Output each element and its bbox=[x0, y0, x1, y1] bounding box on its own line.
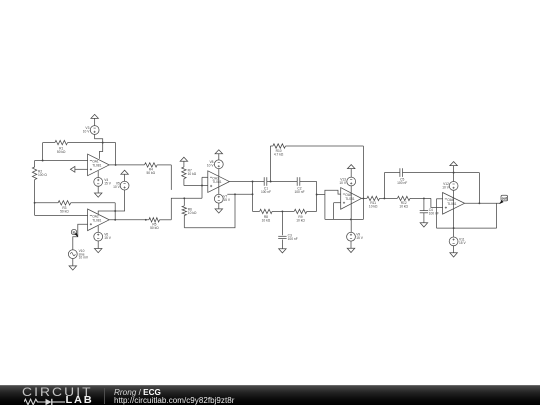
wire R5 up to stage2 row bbox=[171, 198, 202, 220]
wire OA6 output row bbox=[465, 202, 501, 204]
svg-text:TL081: TL081 bbox=[92, 164, 101, 168]
wire dangling stub right of R4 bbox=[170, 165, 172, 190]
junction output / top feedback bbox=[478, 202, 480, 204]
ground below V11 bbox=[450, 246, 458, 257]
junction R6 top bbox=[183, 197, 185, 199]
wire link to OA5 inverting input bbox=[325, 190, 341, 194]
svg-text:100 nF: 100 nF bbox=[288, 237, 298, 241]
resistor R5 bbox=[149, 218, 160, 231]
wire reference row bbox=[227, 193, 252, 195]
wire vertical link to inverting stub bbox=[201, 177, 203, 198]
wire OA3 inverting stub bbox=[202, 176, 208, 178]
power flag VCC (above V3) bbox=[91, 114, 99, 125]
svg-text:10 V: 10 V bbox=[113, 185, 121, 189]
wire V8 through OA3 to V7 bbox=[218, 169, 220, 195]
resistor R1 bbox=[55, 140, 68, 154]
svg-text:100 nF: 100 nF bbox=[397, 181, 407, 185]
input flag electrode 1 bbox=[70, 166, 87, 172]
resistor R2 bbox=[32, 161, 47, 203]
wire OA6 inverting stub bbox=[437, 198, 443, 200]
wire OA5 non-inverting stub bbox=[334, 203, 341, 220]
resistor R7 bbox=[182, 167, 197, 186]
svg-text:15 V: 15 V bbox=[104, 236, 112, 240]
voltage source V10 sine bbox=[68, 249, 88, 260]
junction branch / reference row bbox=[252, 193, 254, 195]
wire summing node link bbox=[317, 194, 325, 196]
wire feedback row R1 bbox=[43, 142, 116, 144]
svg-text:10 kΩ: 10 kΩ bbox=[369, 205, 378, 209]
power flag VCC (above V8) bbox=[215, 150, 223, 160]
voltage source V12 bbox=[442, 182, 458, 191]
svg-text:10 V: 10 V bbox=[207, 164, 215, 168]
svg-text:100 Ω: 100 Ω bbox=[38, 173, 47, 177]
resistor R9 bbox=[294, 209, 307, 222]
wire V3 to OA1 V+ pin bbox=[95, 134, 103, 158]
wire OA1 inverting input row bbox=[35, 160, 88, 162]
svg-text:100 nF: 100 nF bbox=[429, 212, 439, 216]
wire OA2 non-inverting input bbox=[73, 224, 88, 250]
svg-text:10 kΩ: 10 kΩ bbox=[188, 211, 197, 215]
junction output row / R8 branch bbox=[252, 181, 254, 183]
ground below C4 bbox=[420, 223, 428, 227]
svg-text:100 nF: 100 nF bbox=[294, 190, 304, 194]
node flag out bbox=[500, 195, 508, 203]
footer bar bbox=[0, 385, 540, 405]
wire R6 bottom loop bbox=[184, 194, 235, 227]
junction OA2 output bbox=[114, 219, 116, 221]
junction R2/R3 node bbox=[34, 202, 36, 204]
wire OA6 feedback vertical bbox=[436, 199, 438, 228]
capacitor C5 bbox=[397, 168, 407, 185]
voltage source V6 bbox=[94, 226, 112, 241]
wire R3 row bbox=[35, 202, 116, 204]
ground below V4 bbox=[94, 186, 102, 197]
svg-text:50 kΩ: 50 kΩ bbox=[147, 171, 156, 175]
wire branch vertical C1-R8 bbox=[252, 182, 254, 212]
wire R1 left vertical bbox=[42, 143, 44, 161]
ground below V7 bbox=[215, 203, 223, 213]
svg-text:10 V: 10 V bbox=[339, 181, 347, 185]
power flag VCC (above V12) bbox=[450, 162, 458, 182]
ground below V10 bbox=[69, 259, 77, 271]
svg-text:15 V: 15 V bbox=[459, 241, 467, 245]
capacitor C3 bbox=[278, 211, 298, 248]
junction V12 stem / C5 row bbox=[453, 172, 455, 174]
svg-text:10 V: 10 V bbox=[83, 129, 91, 133]
voltage source V9 bbox=[347, 232, 364, 241]
wire R10 left vertical bbox=[269, 146, 271, 182]
junction summing node bbox=[316, 194, 318, 196]
wire OA2 feedback vertical bbox=[114, 203, 116, 220]
op-amp OA6 bbox=[443, 193, 465, 215]
wire OA5 output row bbox=[362, 197, 431, 199]
svg-text:15 V: 15 V bbox=[356, 236, 364, 240]
junction output row / R10 feedback bbox=[270, 181, 272, 183]
svg-text:50 kΩ: 50 kΩ bbox=[60, 210, 69, 214]
voltage source V4 bbox=[94, 171, 112, 186]
wire OA6 bottom feedback row bbox=[437, 227, 497, 229]
junction C4 tap bbox=[423, 197, 425, 199]
voltage source V5 bbox=[113, 181, 129, 190]
svg-text:10 kΩ: 10 kΩ bbox=[188, 172, 197, 176]
CircuitLab logo bbox=[22, 386, 104, 406]
resistor R11 bbox=[367, 196, 380, 209]
junction OA1 output bbox=[115, 164, 117, 166]
ground below C3 bbox=[279, 249, 287, 253]
wire OA5 bottom feedback row bbox=[325, 218, 364, 220]
junction OA5 Vminus pin / bottom row bbox=[350, 218, 352, 220]
junction R7 row / vertical link bbox=[201, 185, 203, 187]
power flag VCC (above V5) bbox=[121, 170, 129, 181]
svg-text:4.7 kΩ: 4.7 kΩ bbox=[274, 152, 284, 156]
svg-text:TL081: TL081 bbox=[212, 180, 221, 184]
wire jog to OA6 non-inverting input bbox=[431, 198, 443, 207]
wire OA1 output row to R4 bbox=[109, 164, 171, 166]
svg-text:TL081: TL081 bbox=[447, 202, 456, 206]
svg-text:10 kΩ: 10 kΩ bbox=[262, 219, 271, 223]
voltage source V7 bbox=[214, 194, 230, 203]
voltage source V3 bbox=[83, 126, 99, 135]
wire link down to bottom row bbox=[324, 195, 326, 220]
ground below V9 bbox=[347, 241, 355, 252]
junction C3 tap bbox=[281, 210, 283, 212]
voltage source V11 bbox=[449, 237, 466, 246]
resistor R6 bbox=[182, 198, 197, 227]
voltage source V8 bbox=[207, 160, 223, 169]
wire V5 to OA2 V+ pin bbox=[98, 190, 124, 214]
wire top feedback vertical bbox=[478, 173, 480, 204]
junction OA6 Vminus pin / bottom row bbox=[453, 227, 455, 229]
resistor R4 bbox=[145, 163, 158, 175]
svg-text:10 kΩ: 10 kΩ bbox=[296, 219, 305, 223]
capacitor C1 bbox=[261, 177, 271, 194]
junction V3/R1 feedback row bbox=[102, 142, 104, 144]
svg-text:out: out bbox=[502, 196, 508, 200]
wire V13 through OA5 to V9 bbox=[350, 186, 352, 232]
capacitor C4 bbox=[420, 198, 439, 222]
op-amp OA1 bbox=[88, 154, 110, 176]
resistor R8 bbox=[260, 209, 273, 222]
svg-text:10 mV: 10 mV bbox=[79, 256, 89, 260]
junction on R5 row bbox=[145, 219, 147, 221]
svg-text:50 kΩ: 50 kΩ bbox=[57, 150, 66, 154]
wire R10 feedback row bbox=[270, 145, 363, 147]
wire R8 R9 row bbox=[253, 210, 317, 212]
svg-text:10 V: 10 V bbox=[442, 185, 450, 189]
resistor R12 bbox=[397, 196, 410, 209]
voltage source V13 bbox=[339, 177, 355, 186]
junction OA5 output bbox=[362, 197, 364, 199]
ground below V6 bbox=[94, 241, 102, 253]
wire output down to bottom row bbox=[496, 203, 498, 228]
wire C5 feedback row bbox=[384, 172, 479, 174]
svg-text:TL081: TL081 bbox=[345, 197, 354, 201]
svg-text:TL081: TL081 bbox=[92, 218, 101, 222]
wire OA3 output row bbox=[229, 181, 316, 183]
op-amp OA5 bbox=[341, 188, 362, 210]
resistor R3 bbox=[58, 201, 71, 214]
wire C2/R9 right vertical bbox=[316, 182, 318, 212]
junction R1/inverting row bbox=[42, 160, 44, 162]
op-amp OA3 bbox=[208, 171, 230, 193]
wire bottom row up to R10 row bbox=[362, 146, 364, 219]
wire C5 left vertical bbox=[383, 173, 385, 199]
node flag in bbox=[71, 229, 78, 236]
junction V5 line / OA2 feedback vertical bbox=[114, 210, 116, 212]
svg-text:100 nF: 100 nF bbox=[261, 190, 271, 194]
svg-text:15 V: 15 V bbox=[104, 181, 112, 185]
junction C5 branch bbox=[383, 197, 385, 199]
capacitor C2 bbox=[294, 177, 304, 194]
wire OA2 inverting input row bbox=[35, 203, 88, 216]
svg-text:10 kΩ: 10 kΩ bbox=[399, 205, 408, 209]
power flag VCC (above V13) bbox=[347, 165, 355, 178]
wire R7 row to OA3 non-inverting input bbox=[184, 185, 208, 187]
svg-text:50 kΩ: 50 kΩ bbox=[150, 226, 159, 230]
wire OA2 output row to R5 bbox=[109, 219, 171, 221]
wire V12 through OA6 to V11 bbox=[453, 190, 455, 237]
svg-text:15 V: 15 V bbox=[223, 198, 231, 202]
resistor R10 bbox=[273, 144, 286, 157]
op-amp OA2 bbox=[88, 209, 110, 231]
junction loop / reference row bbox=[234, 193, 236, 195]
power flag VCC (above R7) bbox=[180, 157, 188, 167]
wire feedback right vertical to OA1 output bbox=[115, 143, 117, 165]
